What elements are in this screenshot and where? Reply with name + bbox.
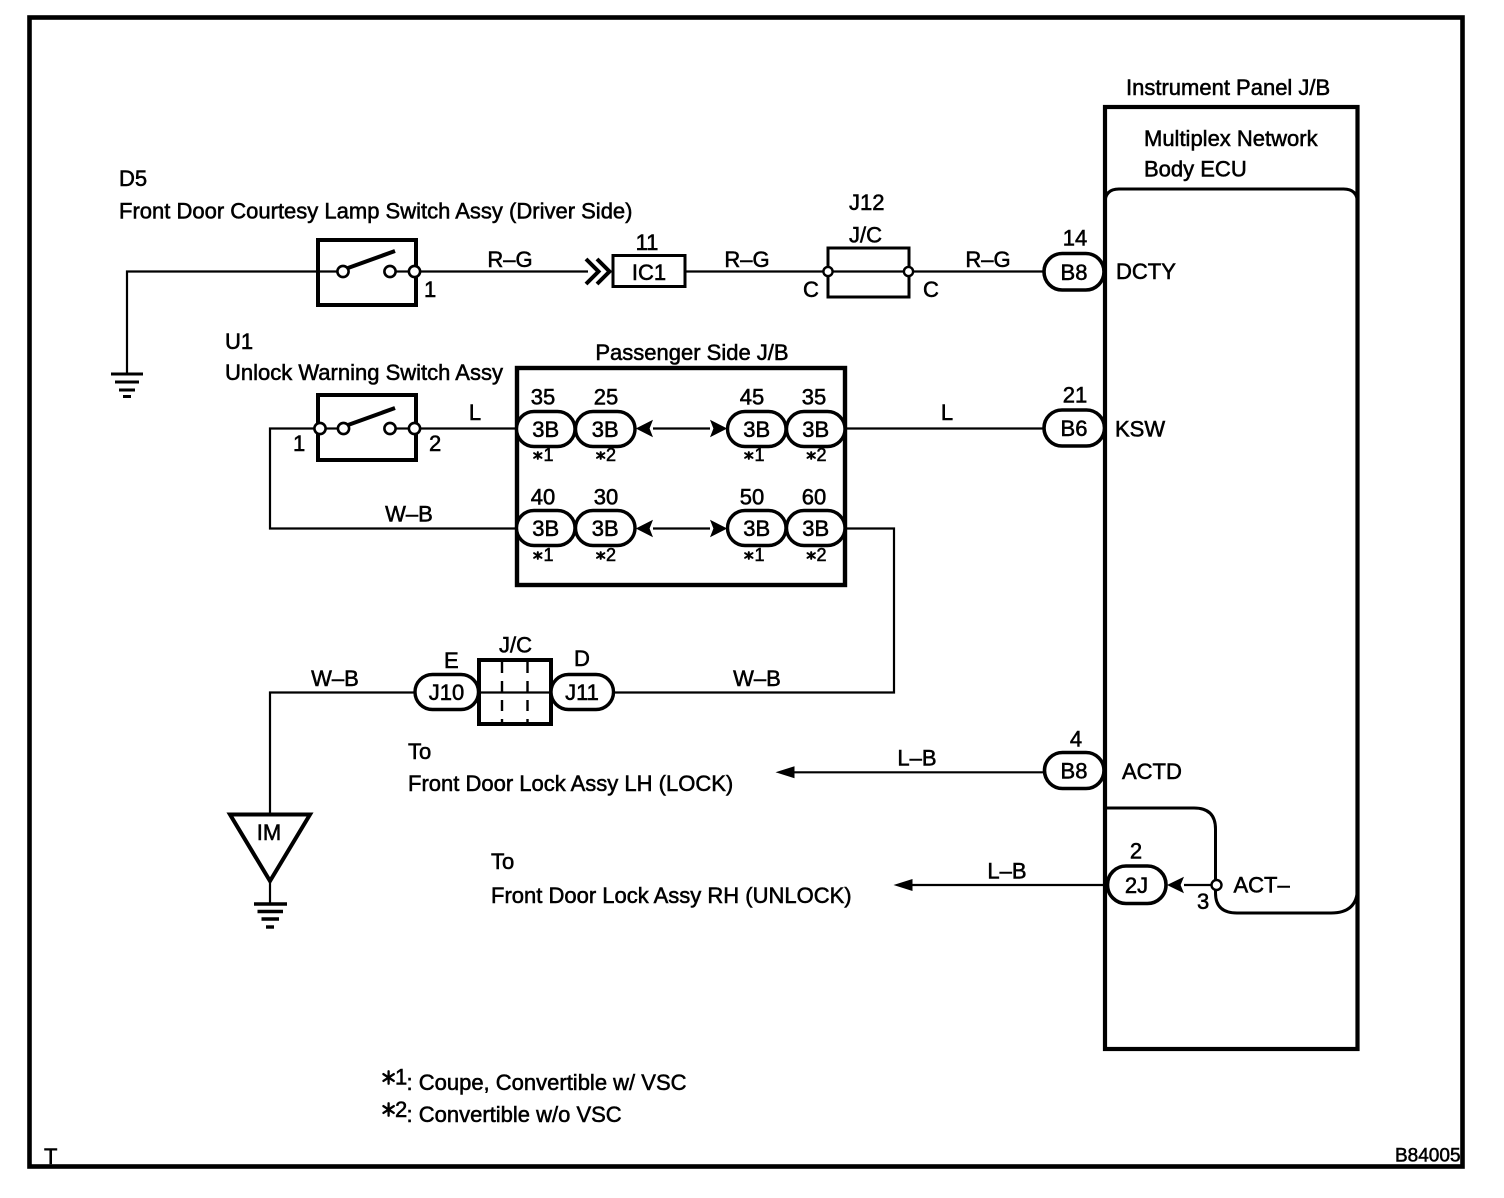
connector 3B row1 a <box>517 412 576 447</box>
svg-text:KSW: KSW <box>1115 417 1165 442</box>
svg-text:35: 35 <box>531 385 555 410</box>
svg-text:4: 4 <box>1070 727 1082 752</box>
svg-text:3B: 3B <box>802 516 829 541</box>
svg-text:1: 1 <box>755 445 765 465</box>
svg-text:1: 1 <box>424 277 436 302</box>
svg-text:2: 2 <box>606 545 616 565</box>
switch U1 (Unlock Warning Switch) <box>314 395 420 460</box>
svg-text:14: 14 <box>1063 226 1087 251</box>
svg-text:3B: 3B <box>532 417 559 442</box>
svg-text:W–B: W–B <box>385 502 433 527</box>
svg-text:To: To <box>491 849 514 874</box>
svg-text:B84005: B84005 <box>1395 1146 1461 1167</box>
wire arrow to RH unlock <box>909 884 1107 886</box>
note *1 Coupe, Convertible w/ VSC <box>383 1071 393 1083</box>
svg-text:30: 30 <box>594 485 618 510</box>
svg-text:21: 21 <box>1063 383 1087 408</box>
wire triangle to ground <box>269 881 271 903</box>
svg-text:J/C: J/C <box>499 633 532 658</box>
svg-text:R–G: R–G <box>965 247 1010 272</box>
wire arrow to LH lock <box>791 771 1044 773</box>
svg-text:DCTY: DCTY <box>1116 259 1176 284</box>
mating arrow right row1 <box>710 420 727 438</box>
svg-text:40: 40 <box>531 485 555 510</box>
svg-text:L–B: L–B <box>987 859 1026 884</box>
svg-text:D: D <box>574 646 590 671</box>
connector B8 (DCTY) <box>1044 254 1104 291</box>
note *2 row2 b <box>597 552 604 559</box>
svg-text:To: To <box>408 739 431 764</box>
connector 3B row2 a <box>517 511 576 546</box>
Multiplex Network Body ECU box divider <box>1105 189 1358 203</box>
connector 3B row2 c <box>728 511 787 546</box>
note *2 row1 b <box>597 452 604 459</box>
svg-text:Passenger Side J/B: Passenger Side J/B <box>595 340 788 365</box>
wire U1 pin1 down to W-B row <box>270 429 517 529</box>
wire U1 pin2 to passenger J/B <box>420 427 517 429</box>
svg-text:Body ECU: Body ECU <box>1144 157 1247 182</box>
svg-text:2: 2 <box>817 445 827 465</box>
connector arrows IC1 <box>586 259 610 284</box>
svg-text:2: 2 <box>395 1097 407 1122</box>
mating arrow 2J <box>1167 877 1184 894</box>
note *1 row1 a <box>534 452 541 459</box>
svg-text:3B: 3B <box>592 417 619 442</box>
svg-text:J10: J10 <box>429 680 464 705</box>
note *1 row2 c <box>745 552 752 559</box>
svg-text:ACTD: ACTD <box>1122 759 1182 784</box>
svg-text:Front Door Lock Assy LH (LOCK): Front Door Lock Assy LH (LOCK) <box>408 771 733 796</box>
svg-text:ACT–: ACT– <box>1234 873 1291 898</box>
svg-text:J12: J12 <box>849 190 884 215</box>
ECU internal wire ACTD to ACT- <box>1106 808 1358 913</box>
svg-text:2: 2 <box>606 445 616 465</box>
svg-text:W–B: W–B <box>311 666 359 691</box>
svg-text:IM: IM <box>257 820 281 845</box>
wire row2 down to J/C <box>614 529 895 693</box>
wire J12 to B8 <box>913 270 1044 272</box>
svg-text:Multiplex Network: Multiplex Network <box>1144 126 1319 151</box>
connector J11 <box>551 675 614 710</box>
connector 3B row1 d <box>787 412 846 447</box>
connector 3B row1 c <box>728 412 787 447</box>
svg-text:45: 45 <box>740 385 764 410</box>
svg-text:1: 1 <box>293 431 305 456</box>
svg-text:1: 1 <box>544 545 554 565</box>
note *1 row1 c <box>745 452 752 459</box>
svg-text:2: 2 <box>429 431 441 456</box>
svg-text:60: 60 <box>802 485 826 510</box>
svg-text:C: C <box>923 277 939 302</box>
IM ground triangle <box>230 815 310 882</box>
svg-text:35: 35 <box>802 385 826 410</box>
svg-text:B8: B8 <box>1061 260 1088 285</box>
svg-text:C: C <box>803 277 819 302</box>
svg-text:2: 2 <box>1130 839 1142 864</box>
svg-text:D5: D5 <box>119 166 147 191</box>
svg-text:U1: U1 <box>225 329 253 354</box>
wire J10 to IM ground <box>270 693 415 815</box>
svg-text:B6: B6 <box>1061 416 1088 441</box>
svg-text:3B: 3B <box>532 516 559 541</box>
note *1 row2 a <box>534 552 541 559</box>
svg-text:R–G: R–G <box>724 247 769 272</box>
svg-text:Unlock Warning Switch Assy: Unlock Warning Switch Assy <box>225 360 503 385</box>
connector J10 <box>415 675 479 710</box>
svg-text:3B: 3B <box>592 516 619 541</box>
connector B6 (KSW) <box>1044 410 1105 446</box>
svg-text:Front Door Lock Assy RH (UNLOC: Front Door Lock Assy RH (UNLOCK) <box>491 883 852 908</box>
wire 2J arrow to node <box>1184 884 1211 886</box>
note *2 row1 d <box>808 452 815 459</box>
svg-text:25: 25 <box>594 385 618 410</box>
wire row1 to B6 <box>845 427 1044 429</box>
svg-text:IC1: IC1 <box>632 260 666 285</box>
svg-text:2: 2 <box>817 545 827 565</box>
wire D5 to IC1 <box>420 270 588 272</box>
junction connector block <box>479 660 551 724</box>
connector 3B row2 d <box>787 511 846 546</box>
switch D5 (Front Door Courtesy Lamp Switch) <box>318 240 420 305</box>
svg-text:1: 1 <box>755 545 765 565</box>
svg-text:E: E <box>444 648 459 673</box>
wire IC1 to J12 <box>685 270 828 272</box>
svg-text:2J: 2J <box>1125 873 1148 898</box>
wire from ground to switch D5 <box>127 272 318 374</box>
note *2 row2 d <box>808 552 815 559</box>
svg-text:3: 3 <box>1197 889 1209 914</box>
connector B8 (ACTD) <box>1045 753 1105 789</box>
Passenger Side J/B box <box>517 368 845 585</box>
Instrument Panel J/B box <box>1105 107 1358 1049</box>
svg-text:50: 50 <box>740 485 764 510</box>
connector 3B row2 b <box>576 511 636 546</box>
svg-text:11: 11 <box>636 230 659 255</box>
svg-text:Front Door Courtesy Lamp Switc: Front Door Courtesy Lamp Switch Assy (Dr… <box>119 199 633 224</box>
connector 3B row1 b <box>576 412 636 447</box>
svg-text:J/C: J/C <box>849 223 882 248</box>
mating arrow left row2 <box>636 520 653 538</box>
note *2 Convertible w/o VSC <box>383 1103 393 1115</box>
junction connector J12 <box>823 248 913 297</box>
svg-text:Instrument Panel J/B: Instrument Panel J/B <box>1126 75 1330 100</box>
svg-text:J11: J11 <box>565 680 599 705</box>
svg-text:W–B: W–B <box>733 666 781 691</box>
svg-text:L: L <box>469 400 481 425</box>
node 3 <box>1212 880 1222 890</box>
wire between mating arrows row1 <box>653 427 710 429</box>
connector 2J <box>1108 866 1167 904</box>
svg-text:1: 1 <box>544 445 554 465</box>
svg-text:: Convertible w/o VSC: : Convertible w/o VSC <box>407 1102 622 1127</box>
svg-text:B8: B8 <box>1061 759 1088 784</box>
mating arrow left row1 <box>636 420 653 438</box>
svg-text:3B: 3B <box>802 417 829 442</box>
svg-text:L–B: L–B <box>897 746 936 771</box>
svg-text:: Coupe, Convertible w/ VSC: : Coupe, Convertible w/ VSC <box>407 1070 687 1095</box>
ground IM <box>254 904 287 927</box>
mating arrow right row2 <box>710 520 727 538</box>
svg-text:3B: 3B <box>743 417 770 442</box>
connector IC1 <box>613 256 685 287</box>
svg-text:R–G: R–G <box>487 247 532 272</box>
svg-text:T: T <box>44 1144 57 1169</box>
svg-text:L: L <box>941 400 953 425</box>
svg-text:3B: 3B <box>743 516 770 541</box>
svg-text:1: 1 <box>395 1065 407 1090</box>
ground <box>111 374 143 397</box>
wire between mating arrows row2 <box>653 527 710 529</box>
